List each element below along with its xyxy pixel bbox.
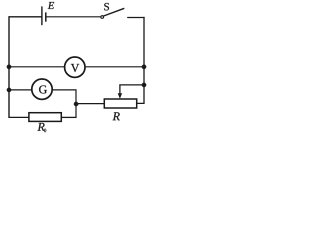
wire: right vertical down to rheostat right lead <box>137 17 144 104</box>
wire: galvanometer to middle vertical <box>53 90 76 118</box>
wire: bottom left to R0 <box>9 116 29 118</box>
wire: top left from corner to battery <box>9 16 42 18</box>
label G <box>39 85 47 93</box>
label V <box>71 64 79 72</box>
switch S blade <box>104 8 125 16</box>
label E <box>48 2 54 9</box>
wire: battery to switch <box>47 16 101 18</box>
battery E long plate <box>41 6 43 25</box>
label R <box>113 112 120 120</box>
wire: voltmeter row left <box>9 66 64 68</box>
wire: junction to rheostat left lead <box>76 103 105 105</box>
resistor R0 box <box>29 113 61 122</box>
battery E short plate <box>45 12 47 21</box>
wire: galvanometer row left <box>9 89 31 91</box>
rheostat R box <box>104 99 136 108</box>
node: wiper right junction <box>142 83 146 87</box>
label S <box>104 3 109 10</box>
voltmeter V circle <box>65 57 85 77</box>
wire: voltmeter row right <box>86 66 144 68</box>
wire: switch to top-right corner <box>127 17 144 19</box>
switch S pivot circle <box>101 16 104 19</box>
node: left G junction <box>7 88 11 92</box>
node: left V junction <box>7 65 11 69</box>
wire: R0 to middle vertical <box>61 116 76 118</box>
node: wiper branch junction <box>74 102 78 106</box>
wiper arm wire <box>120 85 144 94</box>
wiper arrow head <box>118 93 122 99</box>
galvanometer G circle <box>32 79 52 99</box>
label R0 (subscript 0) <box>44 129 46 132</box>
wire: left vertical <box>8 16 10 118</box>
label R0 (R part) <box>37 123 44 131</box>
node: right V junction <box>142 65 146 69</box>
